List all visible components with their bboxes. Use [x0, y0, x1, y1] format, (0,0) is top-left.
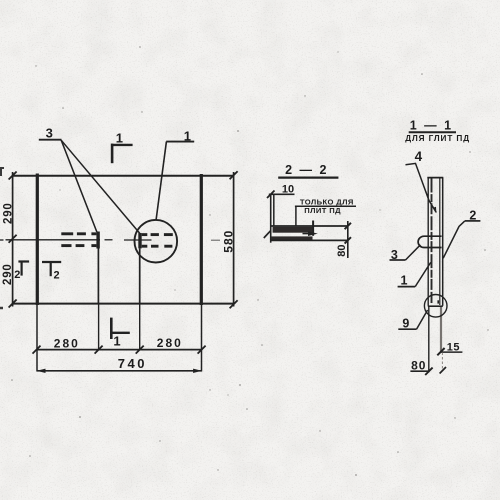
svg-text:2: 2 [469, 209, 476, 223]
section mark 1 top: horizontal [111, 144, 133, 146]
leader from label 2 to bar [443, 221, 465, 258]
svg-text:9: 9 [402, 317, 409, 331]
svg-text:3: 3 [46, 126, 53, 141]
section mark 2 inner: horizontal [42, 261, 61, 263]
section 2-2 left vertical double line (inner) [273, 194, 275, 226]
horizontal centre line of plate [6, 239, 101, 241]
bar lower left line [428, 306, 430, 373]
tick left dim bottom [9, 300, 17, 308]
centre line segment through circle [124, 239, 152, 241]
blackened lower plate strip [271, 236, 313, 240]
break arrow tail [303, 233, 309, 235]
label 2 underline [465, 220, 481, 222]
svg-text:280: 280 [157, 336, 183, 350]
svg-text:ДЛЯ ГЛИТ ПД: ДЛЯ ГЛИТ ПД [405, 134, 470, 143]
bottom dimension line 740 [37, 370, 202, 372]
section 1-1 title underline [409, 131, 456, 133]
vertical tick at end of strip [312, 221, 314, 236]
section 2-2 top line [271, 225, 348, 227]
tick left dim top [9, 172, 17, 180]
plate left edge (thick) [36, 174, 39, 306]
svg-text:1: 1 [113, 334, 120, 349]
svg-text:80: 80 [336, 244, 348, 256]
section mark 1 top: vertical [111, 144, 114, 164]
arrowhead of leader 4 [433, 207, 436, 214]
bar outer left line [427, 178, 429, 306]
anchor loop left cap [418, 236, 424, 247]
blackened upper plate strip [273, 227, 313, 233]
anchor loop top line [424, 235, 442, 237]
label 1 underline (top right) [166, 141, 194, 143]
section mark 2 inner: vertical [50, 261, 52, 276]
interior vertical line at 280 from left: bracket bar [96, 232, 99, 249]
tick 80 dim top [345, 223, 351, 229]
interior vertical line at 280 from right: lower part [139, 248, 141, 303]
tick 280 line at 98.6 [95, 346, 103, 354]
svg-text:280: 280 [54, 337, 80, 351]
dim 80 line [410, 370, 429, 372]
svg-text:290: 290 [3, 202, 15, 224]
dim 15 line [441, 351, 462, 353]
label 3 underline [39, 139, 62, 141]
tick at 80 level right [440, 367, 446, 374]
svg-text:10: 10 [282, 184, 294, 196]
leader from label 4 [406, 163, 437, 212]
svg-text:290: 290 [2, 263, 14, 285]
scan artefacts left edge [0, 168, 4, 308]
dim 10 line [269, 193, 295, 195]
left dimension line 290+290 [12, 172, 14, 307]
small tick above end line [437, 300, 439, 303]
right extension line of 80 dim [347, 221, 349, 258]
leader from label 1 to circle [156, 142, 166, 220]
bar inner left line (dark, broken) [431, 179, 433, 304]
hidden dashes left group lower row [61, 244, 96, 247]
section mark 1 bottom: horizontal [111, 332, 130, 334]
bar inner right line [439, 179, 441, 306]
svg-text:1: 1 [184, 128, 191, 143]
svg-text:3: 3 [391, 248, 398, 262]
note text underline [295, 205, 356, 207]
leader from label 9 to detail circle [417, 310, 428, 329]
label 1 underline [398, 286, 416, 288]
interior line extension to 280 dim [139, 304, 141, 351]
svg-text:580: 580 [221, 230, 235, 253]
plate left edge extension down to 740 dim [36, 305, 38, 372]
interior line extension to 280 dim [98, 304, 100, 351]
arrowhead 740 left [37, 369, 46, 373]
anchor loop bottom line [424, 247, 442, 249]
svg-text:15: 15 [447, 341, 460, 353]
leader from label 1 to bar [415, 262, 431, 286]
plate right edge extension down to 740 dim [201, 305, 203, 372]
note leader vertical [295, 206, 297, 226]
svg-text:4: 4 [415, 149, 423, 164]
svg-text:1: 1 [401, 274, 408, 288]
leader from label 3 to circle bracket [61, 140, 140, 233]
hidden dashes circle group upper row [142, 233, 173, 236]
section mark 2 outer: horizontal [18, 260, 29, 262]
plate bottom edge with extension to both dim lines [12, 303, 234, 305]
leader from label 3 to left bracket [61, 140, 97, 232]
hidden dashes left group upper row [61, 232, 96, 235]
tick right dim bottom [230, 300, 238, 308]
section 2-2 bottom line [271, 239, 348, 241]
section 2-2 left vertical double line (outer) [270, 194, 272, 243]
dim 80 tick at bar [425, 368, 432, 375]
bottom end horizontal line in detail circle [428, 305, 443, 307]
svg-text:740: 740 [118, 356, 147, 371]
interior vertical line at 280 from right: bracket bar [138, 233, 141, 248]
svg-text:2: 2 [14, 269, 20, 281]
tick 280 line at right [198, 346, 206, 354]
bar outer right line [442, 178, 444, 306]
detail circle on plan [135, 220, 178, 263]
svg-text:2 — 2: 2 — 2 [285, 163, 328, 177]
tick dim 10 [267, 191, 275, 199]
tick on left edge lower [264, 231, 271, 238]
faint extension below 15 [441, 353, 443, 371]
section 2-2 title underline [278, 177, 338, 179]
detail circle on section 1-1 [424, 295, 447, 318]
svg-text:ТОЛЬКО ДЛЯ: ТОЛЬКО ДЛЯ [300, 197, 354, 206]
section mark 1 bottom: vertical [110, 318, 113, 339]
svg-text:1: 1 [116, 131, 123, 146]
break arrow on strip [308, 231, 318, 236]
svg-text:1 — 1: 1 — 1 [410, 119, 453, 133]
right dimension line 580 [233, 172, 235, 307]
centre line faint dash right of plate [211, 239, 220, 241]
svg-text:ПЛИТ ПД: ПЛИТ ПД [304, 206, 341, 215]
tick 280 line at 139.7 [136, 346, 144, 354]
hidden dashes circle group lower row [142, 245, 173, 248]
tick 280 line at left [33, 346, 41, 354]
tick 80 dim bottom [345, 237, 351, 243]
bottom dimension line 280/280 [37, 349, 202, 351]
tick left dim middle [9, 235, 17, 243]
arrowhead 740 right [193, 369, 202, 373]
svg-text:80: 80 [411, 358, 426, 372]
centre line short dash [105, 239, 113, 241]
tick right dim top [230, 171, 238, 179]
interior vertical line at 280 from left: lower part [97, 249, 99, 304]
label 9 underline [398, 328, 416, 330]
bar lower right line (grey) [440, 306, 442, 352]
leader from label 3 to loop [406, 245, 421, 260]
section mark 2 outer: vertical [21, 261, 23, 276]
svg-text:2: 2 [54, 270, 60, 282]
label 3 underline [390, 259, 406, 261]
plate top edge with extension to both dim lines [12, 175, 234, 177]
plate right edge (thick) [200, 174, 203, 305]
dim 15 tick at bar end [437, 348, 444, 355]
bar top cap [427, 177, 443, 179]
